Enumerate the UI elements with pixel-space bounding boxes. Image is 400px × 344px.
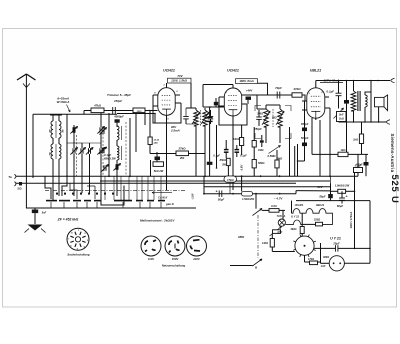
wire to UBL21 grid xyxy=(302,95,305,101)
right rail 90V xyxy=(296,190,331,192)
oscillator coil L5 xyxy=(117,126,119,140)
svg-text:180V, 6mA: 180V, 6mA xyxy=(239,79,253,83)
trimmer C4 xyxy=(88,148,90,153)
svg-text:UCH21: UCH21 xyxy=(227,69,239,73)
wire bottom switch xyxy=(230,265,253,267)
svg-text:13.32: 13.32 xyxy=(154,139,160,141)
svg-text:2W: 2W xyxy=(221,162,226,166)
tube UCH21 first xyxy=(158,88,175,116)
wire v289 xyxy=(289,127,291,176)
IF1 capacitor left xyxy=(183,116,189,118)
bus line 2 xyxy=(16,182,296,184)
wire B+ vertical xyxy=(354,173,356,249)
cap blob anode xyxy=(346,81,348,101)
svg-text:Meßinstrument : 2kΩ/1V: Meßinstrument : 2kΩ/1V xyxy=(140,219,175,223)
pickup terminal Ta xyxy=(15,174,17,186)
grid cap blob tube2 xyxy=(214,102,218,106)
svg-text:1500: 1500 xyxy=(137,111,143,113)
output transformer core xyxy=(357,91,359,111)
trimmer C2 xyxy=(72,148,74,153)
svg-text:1kΩ: 1kΩ xyxy=(353,138,358,142)
bus AVC line xyxy=(16,175,358,177)
switch wires down xyxy=(50,202,52,208)
svg-text:W=50mA: W=50mA xyxy=(57,100,70,104)
wire selector down xyxy=(304,255,306,262)
IF2 can xyxy=(255,106,261,112)
IF1 core xyxy=(200,110,202,126)
svg-text:0.5MΩ: 0.5MΩ xyxy=(267,154,276,158)
svg-text:50µF: 50µF xyxy=(319,195,326,199)
svg-text:5kΩ 2W: 5kΩ 2W xyxy=(154,169,164,173)
cap blob AVC xyxy=(209,143,211,162)
output terminal bottom xyxy=(386,120,390,124)
mains plug diagram 220V xyxy=(187,236,207,256)
svg-text:0.2µF: 0.2µF xyxy=(355,164,362,167)
trimmer C6 xyxy=(99,148,101,153)
cap thick bars xyxy=(207,116,213,118)
page border frame xyxy=(3,29,397,308)
svg-text:2.5mA: 2.5mA xyxy=(170,129,180,133)
IF2 capacitor left xyxy=(256,116,262,118)
svg-text:+44V: +44V xyxy=(246,89,254,93)
mains switch xyxy=(255,194,257,209)
resistor 47k input xyxy=(91,108,104,113)
band switch label xyxy=(152,192,172,194)
oscillator coil L6 xyxy=(117,146,119,160)
voltage selector socket xyxy=(295,236,314,255)
IF2 bottom wires xyxy=(265,127,267,143)
tube2 pins xyxy=(219,96,224,98)
wire antenna to input xyxy=(33,113,117,115)
svg-text:0.8A: 0.8A xyxy=(271,204,277,208)
NTC resistor xyxy=(270,227,282,237)
svg-text:65kΩ 2W: 65kΩ 2W xyxy=(104,157,116,161)
switch stubs up xyxy=(104,176,106,200)
coil L1 antenna xyxy=(52,115,54,121)
svg-text:500pF: 500pF xyxy=(301,136,309,140)
svg-text:14Ω: 14Ω xyxy=(154,141,158,144)
svg-text:34kΩ: 34kΩ xyxy=(233,137,239,141)
svg-text:47kΩ: 47kΩ xyxy=(292,87,301,91)
bottom bus left xyxy=(26,207,196,209)
pot 0.5M arrow xyxy=(269,146,281,154)
resistor 150ohm xyxy=(133,108,145,113)
wire box below tube2 xyxy=(219,97,247,125)
svg-text:-1.8V: -1.8V xyxy=(190,193,194,199)
svg-text:UCH21: UCH21 xyxy=(163,69,175,73)
trimmer padder C9 xyxy=(103,165,105,170)
dial lamp xyxy=(282,210,284,219)
trimmer C1 xyxy=(72,127,74,132)
wire 330 connector xyxy=(330,176,332,183)
svg-text:S/Ω: S/Ω xyxy=(17,188,21,191)
resistor 1k horizontal xyxy=(338,152,348,156)
wire motor right xyxy=(344,262,370,264)
svg-text:380Ω: 380Ω xyxy=(323,256,329,259)
coil L2 antenna xyxy=(58,115,60,121)
resistor 2M xyxy=(275,160,279,168)
resistor 13k box xyxy=(148,137,152,145)
resistor 47k coupling xyxy=(292,93,302,97)
output terminal top xyxy=(391,78,395,82)
resistor 580 xyxy=(252,160,256,168)
svg-text:NTC: NTC xyxy=(278,231,283,234)
svg-text:25µF: 25µF xyxy=(332,242,340,246)
svg-text:Siemens-Austria: Siemens-Austria xyxy=(390,134,395,173)
svg-text:4000pF: 4000pF xyxy=(113,114,124,118)
svg-text:+: + xyxy=(346,195,348,199)
junction dots buses xyxy=(66,175,68,177)
wire verticals mid xyxy=(203,176,205,194)
svg-text:140Ω: 140Ω xyxy=(262,242,268,245)
switch jog c xyxy=(94,186,96,199)
bottom rail speaker xyxy=(339,121,387,123)
svg-text:1.5kΩ/2W: 1.5kΩ/2W xyxy=(242,197,255,201)
capacitor 70pF series xyxy=(276,92,278,99)
trimmer C7 xyxy=(101,128,103,133)
wire grid line tube1 xyxy=(84,110,158,112)
wire second grid xyxy=(117,113,155,115)
ground symbol xyxy=(28,225,43,231)
trimmer C8 xyxy=(101,148,103,153)
svg-text:300Ω: 300Ω xyxy=(257,113,263,116)
svg-text:1.8kΩ/0.2W: 1.8kΩ/0.2W xyxy=(335,184,350,188)
svg-text:17kΩ: 17kΩ xyxy=(227,178,234,182)
svg-text:Sockelschaltung: Sockelschaltung xyxy=(67,252,90,256)
anode top rail xyxy=(315,81,317,88)
resistor 5k 2W xyxy=(153,162,164,167)
svg-text:UBL21: UBL21 xyxy=(310,69,321,73)
switch contact dots xyxy=(56,193,58,195)
wire grid node tube2 xyxy=(203,106,225,108)
coil L3 xyxy=(51,144,53,159)
svg-text:27kΩ: 27kΩ xyxy=(177,146,186,150)
mains plug diagram 110V xyxy=(141,236,161,256)
cathode wires UBL21 xyxy=(311,118,313,154)
svg-text:1AF: 1AF xyxy=(321,265,326,268)
tube socket diagram xyxy=(67,228,89,250)
heater chain xyxy=(291,201,293,214)
svg-text:ZF = 452 kHz: ZF = 452 kHz xyxy=(57,218,79,222)
svg-text:47kΩ: 47kΩ xyxy=(93,104,102,108)
svg-text:300V / 170mA: 300V / 170mA xyxy=(349,212,353,229)
tube UBL21 xyxy=(307,88,325,118)
svg-text:0.1µF: 0.1µF xyxy=(213,153,220,157)
capacitor blob osc xyxy=(155,157,161,161)
right vertical 300V xyxy=(369,201,371,249)
svg-text:Ta: Ta xyxy=(8,175,12,179)
svg-text:1kΩ: 1kΩ xyxy=(341,148,346,152)
tone control pot arrow xyxy=(334,108,344,119)
ground cap 5nF xyxy=(34,208,36,210)
dash-dot band line xyxy=(45,190,186,192)
svg-text:Netzumschaltung: Netzumschaltung xyxy=(162,263,186,267)
bus line 4 xyxy=(204,193,296,195)
IF1 winding primary xyxy=(191,107,196,109)
svg-text:geo-K: geo-K xyxy=(165,202,175,206)
svg-text:UBL21: UBL21 xyxy=(316,203,325,207)
volume pot 17k xyxy=(224,176,237,182)
IF1 winding secondary xyxy=(203,110,207,126)
wire v294 xyxy=(294,146,296,176)
bus heater line xyxy=(204,186,330,188)
IF1 capacitor right xyxy=(208,116,214,118)
switch jog a xyxy=(45,176,51,199)
resistor 1M IF2 xyxy=(252,141,256,148)
trimmer C5 xyxy=(99,127,101,132)
cap bars 0.1uF xyxy=(235,149,240,151)
svg-text:+: + xyxy=(216,189,218,193)
tone box 5nF 1k xyxy=(337,112,347,122)
svg-text:Trimmer 5...35pF: Trimmer 5...35pF xyxy=(107,93,131,97)
svg-text:5nF: 5nF xyxy=(339,112,344,116)
cap bars screen xyxy=(224,149,229,151)
mains plug diagram 150V xyxy=(165,236,185,256)
switch box xyxy=(101,186,124,206)
resistor 1k vertical xyxy=(361,122,363,134)
tube3 pins xyxy=(302,100,307,102)
tube1 pins xyxy=(153,94,158,96)
IF2 winding primary xyxy=(264,109,269,127)
IF1 bottom wires xyxy=(195,126,197,176)
svg-text:70pF: 70pF xyxy=(275,86,282,90)
svg-text:U Y 21: U Y 21 xyxy=(330,236,341,240)
right rail 200 xyxy=(296,200,370,202)
switch bars xyxy=(46,200,57,202)
speaker xyxy=(375,97,385,106)
wire UBL21 bottom xyxy=(315,118,317,120)
svg-text:390Ω: 390Ω xyxy=(290,228,296,231)
svg-text:5nF: 5nF xyxy=(42,211,47,214)
svg-text:85kΩ: 85kΩ xyxy=(220,158,226,162)
svg-text:150Ω: 150Ω xyxy=(314,217,320,221)
svg-text:56Ω: 56Ω xyxy=(272,117,277,120)
wire anode top xyxy=(166,83,168,88)
svg-text:~ 4.7V: ~ 4.7V xyxy=(274,197,284,201)
IF2 top wires xyxy=(256,95,258,109)
antenna xyxy=(25,74,27,208)
svg-text:1MΩ: 1MΩ xyxy=(258,149,263,152)
resistor 1.5k oval xyxy=(242,191,253,196)
wires osc section xyxy=(108,113,110,176)
wires RF verticals xyxy=(73,125,75,147)
output transformer primary xyxy=(353,81,355,92)
resistor 140 xyxy=(271,233,273,238)
svg-text:UCH21: UCH21 xyxy=(295,203,304,207)
IF2 core xyxy=(272,109,274,127)
wire grid left xyxy=(152,106,154,111)
IF2 winding secondary xyxy=(278,109,283,127)
gang dashed line xyxy=(102,126,104,176)
svg-text:110V, 1.5kΩ: 110V, 1.5kΩ xyxy=(171,79,188,83)
svg-text:220V: 220V xyxy=(192,257,201,261)
cap 0.2uF box xyxy=(357,154,359,167)
svg-text:50µF: 50µF xyxy=(218,198,225,202)
cathode wire y154 xyxy=(312,153,368,155)
coil L4 xyxy=(59,144,61,159)
trimmer padder C10 xyxy=(115,164,117,169)
tube2 grid top wire xyxy=(232,85,234,89)
resistor 27k 2W xyxy=(176,151,189,156)
capacitor 150pF series xyxy=(112,107,114,114)
tube UCH21 second xyxy=(224,88,241,116)
svg-text:7V/0.1A: 7V/0.1A xyxy=(277,215,286,218)
svg-text:-1.8V: -1.8V xyxy=(240,165,244,172)
svg-text:0.1µF: 0.1µF xyxy=(327,89,335,93)
svg-text:0.1µF: 0.1µF xyxy=(240,154,247,158)
wire box below tube1 xyxy=(153,95,181,123)
resistor 34k xyxy=(240,138,244,146)
svg-text:U Y 21: U Y 21 xyxy=(291,215,300,219)
svg-text:150pF: 150pF xyxy=(114,99,122,103)
cap 4.7nF blob xyxy=(365,154,367,162)
tube2 anode rail xyxy=(246,94,302,96)
svg-text:580Ω: 580Ω xyxy=(258,161,264,165)
output transformer secondary xyxy=(365,95,367,107)
svg-text:525 U: 525 U xyxy=(390,175,400,204)
svg-text:150V: 150V xyxy=(172,257,180,261)
wire elbows to switch xyxy=(62,160,67,196)
svg-text:60µF: 60µF xyxy=(337,204,344,208)
motor circle xyxy=(329,256,344,271)
wire to motor xyxy=(320,243,322,263)
bus line 3 xyxy=(100,180,330,182)
svg-text:CA W K: CA W K xyxy=(158,195,169,199)
cap blob IF2 xyxy=(260,140,264,142)
svg-text:2W: 2W xyxy=(179,156,185,160)
switch jog b xyxy=(70,183,77,199)
svg-text:1kΩ: 1kΩ xyxy=(339,116,344,120)
resistor 85k 2W xyxy=(227,158,231,165)
speaker wires xyxy=(370,81,372,123)
trimmer C3 xyxy=(80,148,82,153)
